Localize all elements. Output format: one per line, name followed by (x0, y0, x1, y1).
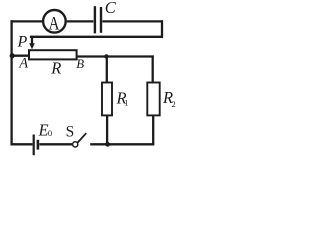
svg-text:R: R (50, 59, 61, 78)
svg-text:A: A (49, 15, 61, 35)
svg-text:1: 1 (124, 98, 128, 108)
svg-text:2: 2 (172, 99, 176, 109)
svg-text:S: S (66, 123, 75, 140)
svg-text:P: P (17, 34, 28, 51)
svg-text:0: 0 (48, 128, 52, 138)
svg-text:C: C (105, 0, 117, 17)
svg-text:B: B (76, 57, 84, 71)
svg-text:A: A (18, 56, 28, 72)
